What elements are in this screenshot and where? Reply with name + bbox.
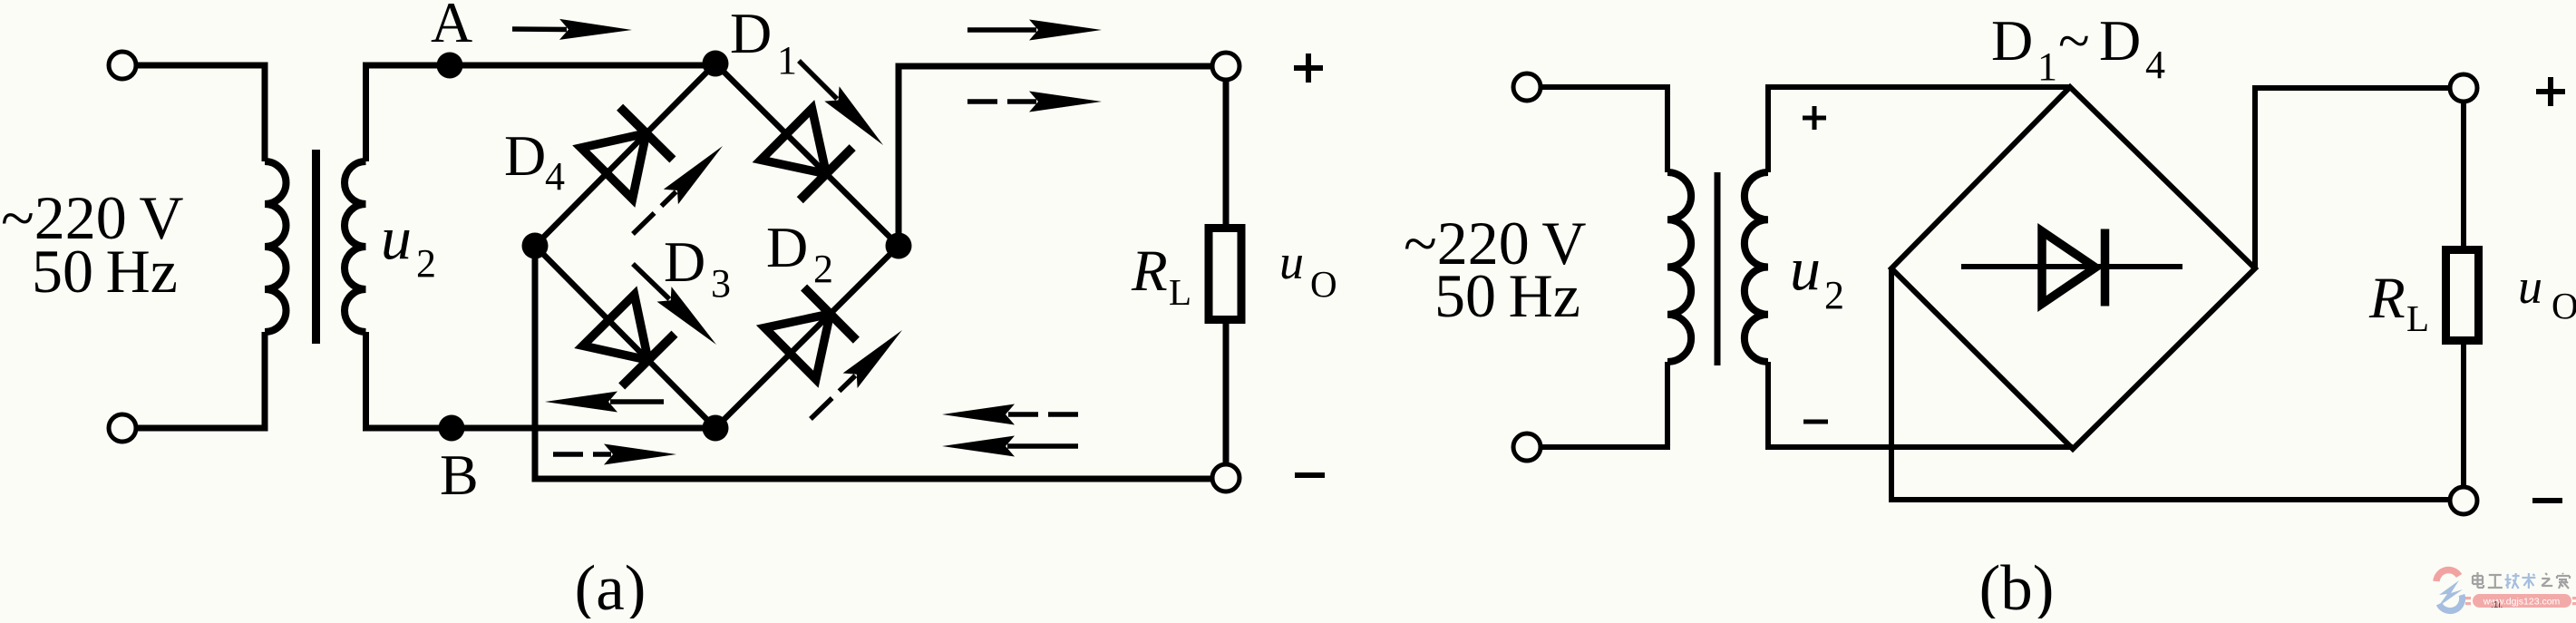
transformer core (b): [1715, 172, 1721, 365]
svg-text:u: u: [2518, 259, 2542, 314]
wire bridge branch bottom-left (a): [535, 246, 715, 428]
svg-text:4: 4: [2145, 43, 2165, 87]
svg-text:O: O: [2552, 285, 2576, 326]
svg-text:1: 1: [2037, 44, 2057, 89]
terminal primary top (b): [1513, 73, 1541, 101]
svg-text:2: 2: [813, 247, 833, 291]
label plus (b): [2536, 89, 2565, 94]
wire negative rail (a): [535, 246, 1213, 479]
diode D3: [583, 295, 648, 360]
bridge diode triangle (b): [2042, 231, 2095, 304]
node bridge left vertex (a): [522, 233, 549, 259]
label minus (a): [1295, 472, 1325, 478]
arrow current solid return left (a): [610, 399, 664, 404]
resistor RL (b): [2446, 250, 2479, 341]
label secondary plus (b): [1803, 116, 1826, 121]
bridge diode cathode bar (b): [2101, 229, 2110, 307]
wire bridge branch bottom-right (a): [715, 246, 899, 428]
svg-text:(a): (a): [575, 553, 646, 618]
wire secondary top rail (b): [1768, 87, 2070, 172]
wire primary top (a): [135, 65, 265, 161]
arrow current solid A-D1 (a): [512, 26, 567, 32]
wire load bottom (a): [1223, 320, 1230, 465]
svg-text::1i.: :1i.: [2491, 600, 2503, 610]
arrow current dashed output bottom (a): [1007, 412, 1078, 417]
wire load top (b): [2461, 101, 2466, 250]
svg-text:3: 3: [711, 261, 731, 306]
svg-text:D: D: [730, 1, 772, 65]
svg-text:D: D: [2099, 8, 2141, 73]
transformer secondary winding (b): [1745, 172, 1768, 362]
svg-text:50 Hz: 50 Hz: [1434, 261, 1580, 330]
wire primary bottom (a): [135, 332, 265, 428]
terminal primary bottom (a): [109, 414, 136, 442]
label secondary minus (b): [1803, 420, 1828, 424]
svg-text:1: 1: [777, 38, 797, 83]
bridge diode lead line (b): [1961, 264, 2182, 269]
svg-text:L: L: [1169, 271, 1191, 313]
wire load top (a): [1223, 79, 1230, 228]
svg-text:L: L: [2406, 297, 2429, 339]
bridge diamond (b): [1891, 87, 2255, 449]
diode D4: [581, 133, 646, 199]
terminal output plus (a): [1212, 53, 1239, 80]
svg-text:D: D: [1991, 8, 2033, 73]
terminal primary bottom (b): [1513, 433, 1541, 461]
diode D2: [764, 314, 830, 379]
svg-text:4: 4: [545, 154, 565, 199]
resistor RL (a): [1209, 229, 1241, 320]
arrow current dashed D2 branch (a): [811, 375, 855, 419]
svg-text:u: u: [1279, 235, 1304, 289]
watermark logo and site name: [2436, 570, 2576, 611]
terminal output minus (b): [2450, 487, 2477, 514]
svg-text:2: 2: [1824, 273, 1844, 317]
arrow current dashed D4 branch (a): [633, 191, 676, 234]
terminal output minus (a): [1212, 464, 1239, 492]
diode D1: [761, 109, 826, 174]
wire negative rail (b): [1891, 268, 2450, 500]
arrow current solid D3 branch (a): [633, 264, 669, 299]
terminal output plus (b): [2450, 74, 2477, 102]
wire secondary top to node A and bridge (a): [366, 65, 716, 161]
svg-text:R: R: [2368, 266, 2406, 331]
wire bridge branch top-left (a): [535, 63, 715, 246]
arrow current solid output bottom (a): [1007, 443, 1078, 449]
node B: [439, 415, 465, 442]
wire secondary bottom to node B and bridge (a): [366, 332, 716, 428]
svg-text:D: D: [504, 123, 546, 188]
transformer primary winding (b): [1667, 172, 1691, 362]
node bridge bottom vertex (a): [703, 415, 729, 442]
svg-text:u: u: [1790, 234, 1821, 303]
transformer secondary winding (a): [345, 161, 366, 332]
wire positive rail (a): [899, 66, 1213, 246]
svg-text:O: O: [1310, 263, 1337, 305]
terminal primary top (a): [109, 52, 136, 79]
wire secondary bottom rail (b): [1768, 362, 2073, 447]
svg-text:2: 2: [416, 241, 436, 286]
svg-text:50 Hz: 50 Hz: [32, 237, 178, 306]
label plus (a): [1294, 65, 1323, 71]
svg-text:~: ~: [2058, 8, 2090, 73]
svg-text:A: A: [431, 0, 472, 54]
node A: [437, 53, 463, 79]
wire load bottom (b): [2461, 340, 2466, 488]
svg-text:(b): (b): [1979, 553, 2055, 618]
node bridge top vertex (a): [703, 51, 729, 77]
svg-text:R: R: [1131, 238, 1168, 304]
wire positive rail (b): [2255, 88, 2450, 268]
svg-text:D: D: [766, 215, 808, 279]
svg-text:B: B: [440, 443, 479, 507]
wire primary top (b): [1540, 87, 1667, 172]
arrow current solid D1 branch (a): [799, 61, 837, 99]
arrow current solid output top (a): [967, 27, 1036, 33]
svg-text:D: D: [664, 229, 705, 294]
transformer core (a): [312, 150, 320, 344]
label minus (b): [2532, 498, 2562, 503]
arrow current dashed B wire right (a): [553, 452, 611, 457]
wire primary bottom (b): [1540, 362, 1667, 447]
arrow current dashed output top (a): [967, 99, 1036, 104]
transformer primary winding (a): [265, 161, 287, 332]
svg-text:u: u: [381, 203, 412, 272]
wire bridge branch top-right (a): [715, 63, 899, 246]
node bridge right vertex (a): [886, 233, 912, 259]
